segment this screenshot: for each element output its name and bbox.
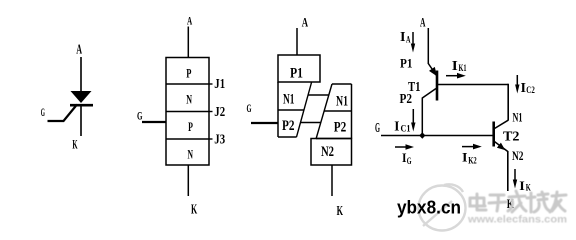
svg-text:N: N: [186, 91, 192, 106]
current IC2 arrow: [516, 75, 518, 85]
transistor T2 base bar: [492, 122, 495, 147]
right stack top: [332, 83, 352, 85]
wire gate to T2 base: [381, 135, 494, 137]
SCR cathode bar: [70, 104, 93, 107]
svg-text:T2: T2: [503, 129, 520, 144]
svg-text:K: K: [191, 202, 197, 217]
transistor T2 emitter: [494, 141, 508, 152]
band connector upper: [308, 94, 329, 96]
tick J2: [209, 111, 213, 113]
svg-text:A: A: [76, 42, 82, 57]
junction J3 divider: [166, 138, 209, 140]
svg-text:I: I: [394, 119, 399, 134]
svg-text:I: I: [521, 80, 527, 95]
current IG arrow: [395, 146, 406, 148]
svg-text:G: G: [247, 101, 252, 115]
region P1 box: [278, 55, 320, 82]
svg-text:N2: N2: [321, 144, 334, 160]
wire T1 collector down to junction: [421, 98, 423, 136]
wire gate lead (panel 3): [251, 122, 278, 124]
svg-text:P1: P1: [290, 66, 303, 82]
tick J3: [209, 138, 213, 140]
wire T2 emitter down to K: [507, 151, 509, 191]
svg-text:www.elecfans.com: www.elecfans.com: [467, 214, 567, 226]
svg-text:ybx8.cn: ybx8.cn: [397, 197, 461, 218]
svg-text:K2: K2: [468, 156, 477, 166]
junction J2 divider: [166, 111, 209, 113]
diagonal shear line left: [297, 83, 312, 138]
diagonal shear line right: [316, 84, 332, 139]
svg-text:I: I: [462, 150, 468, 165]
svg-text:I: I: [400, 30, 406, 45]
svg-text:P1: P1: [400, 55, 413, 70]
left stack bottom: [278, 136, 297, 138]
svg-text:A: A: [302, 15, 309, 30]
right stack divider: [324, 110, 351, 112]
烧: [527, 192, 550, 212]
current IK2 arrow: [462, 146, 474, 148]
wire anode lead: [187, 27, 189, 58]
svg-text:I: I: [452, 59, 458, 74]
current IA arrow: [412, 32, 414, 44]
right stack bottom: [316, 138, 352, 140]
svg-text:N2: N2: [512, 149, 524, 163]
wire T1 base to right corner: [437, 84, 508, 86]
电: [470, 194, 486, 210]
svg-text:C2: C2: [526, 86, 535, 96]
svg-text:P2: P2: [400, 91, 413, 106]
transistor T2 collector: [494, 120, 509, 129]
svg-text:N1: N1: [513, 111, 523, 125]
svg-text:N1: N1: [283, 91, 295, 107]
子: [489, 195, 506, 211]
watermark chinese characters (hand-drawn strokes): [470, 191, 566, 212]
wire gate lead (panel 2): [142, 121, 166, 123]
wire anode lead (panel 3): [296, 28, 298, 55]
svg-text:I: I: [519, 178, 525, 193]
current IC1 arrow: [412, 109, 414, 123]
svg-text:G: G: [41, 107, 45, 119]
svg-text:A: A: [420, 14, 426, 29]
left stack divider: [278, 109, 304, 111]
wire cathode lead: [80, 106, 82, 136]
wire cathode lead (panel 3): [331, 165, 333, 196]
junction J1 divider: [166, 83, 209, 85]
svg-text:K: K: [72, 138, 77, 152]
svg-text:N1: N1: [336, 93, 348, 109]
svg-text:G: G: [407, 157, 412, 167]
band connector lower: [301, 122, 321, 124]
current IK arrow: [514, 169, 516, 180]
PNPN stack outline: [166, 58, 209, 166]
svg-text:A: A: [406, 35, 411, 45]
wire cathode lead (panel 2): [187, 165, 189, 196]
svg-text:C1: C1: [401, 125, 411, 135]
region N2 box: [311, 139, 352, 166]
svg-text:P2: P2: [334, 120, 347, 136]
left stack left edge: [277, 82, 279, 137]
current IK1 arrow: [446, 75, 458, 77]
svg-text:K1: K1: [459, 64, 467, 74]
transistor T1 base bar: [436, 71, 439, 101]
svg-text:P2: P2: [282, 118, 295, 134]
wire gate lead: [48, 105, 78, 122]
svg-text:K: K: [337, 203, 344, 218]
transistor T1 emitter: [428, 64, 436, 76]
watermark logo circle: [419, 184, 466, 230]
svg-text:J3: J3: [214, 133, 225, 148]
svg-text:J1: J1: [214, 77, 225, 92]
svg-text:G: G: [375, 120, 380, 135]
友: [550, 192, 566, 212]
svg-text:P: P: [186, 66, 191, 81]
svg-text:N: N: [188, 147, 194, 162]
svg-text:J2: J2: [214, 105, 225, 120]
wire anode lead: [80, 57, 82, 92]
junction dot: [419, 132, 425, 138]
发: [508, 191, 526, 212]
svg-text:A: A: [187, 15, 193, 27]
SCR triangle: [71, 91, 92, 103]
right stack right edge: [351, 84, 353, 139]
wire right corner down to T2 collector: [507, 84, 509, 121]
wire anode lead (panel 4): [427, 28, 429, 64]
tick J1: [209, 83, 213, 85]
svg-text:G: G: [137, 111, 143, 123]
svg-text:P: P: [188, 119, 193, 134]
transistor T1 collector: [422, 89, 436, 99]
